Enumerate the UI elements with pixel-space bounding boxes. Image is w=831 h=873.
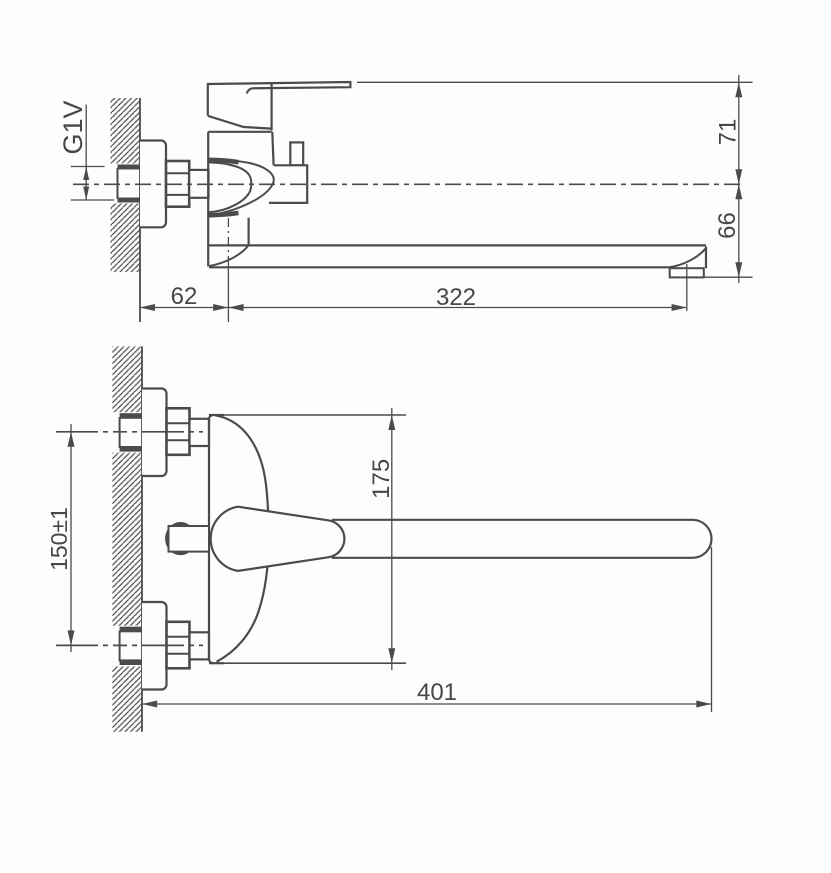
extension line handle top: [357, 81, 753, 83]
lower nipple dark band top: [120, 627, 142, 633]
threaded nipple dark band top: [118, 165, 141, 170]
aerator center extension line: [686, 264, 688, 311]
dim 150 top arrow: [68, 432, 75, 447]
body top edge + 175 top extension line: [209, 414, 406, 416]
wall hatch (front view): [112, 346, 142, 731]
handle block right edge: [271, 83, 273, 130]
cartridge dome thick bottom band: [208, 213, 238, 215]
svg-text:401: 401: [417, 679, 457, 706]
wall hatch (side view): [111, 98, 141, 272]
svg-text:175: 175: [368, 459, 395, 499]
cartridge dome inner curve: [208, 162, 251, 212]
dim 401 left arrow: [142, 701, 157, 708]
spout pill (front view): [332, 520, 712, 558]
body bottom edge + 175 bottom extension line: [209, 662, 406, 664]
lower escutcheon: [142, 602, 167, 690]
nipple end cap line: [117, 168, 119, 199]
dim 71 bottom arrow: [735, 169, 742, 184]
dim 62 right arrow: [213, 304, 228, 311]
upper connecting pipe: [190, 419, 210, 446]
G1V extension line top: [71, 166, 105, 168]
wall face edge line (front view): [141, 346, 143, 731]
dim 322 left arrow: [228, 304, 243, 311]
spout tip concave cut: [669, 248, 706, 267]
cartridge dome thick top band: [208, 160, 238, 162]
dim 175 bottom arrow: [388, 648, 395, 663]
dim 150 bottom arrow: [68, 630, 75, 645]
body axis extension line: [227, 218, 229, 265]
spout bottom line (side view): [209, 266, 669, 268]
dim 401 line: [142, 703, 712, 705]
upper eccentric centerline: [56, 431, 203, 433]
lower connecting pipe: [190, 632, 210, 659]
body neck top edge (side view): [208, 131, 271, 133]
dim 62 left arrow: [140, 304, 155, 311]
connecting pipe (side view): [189, 170, 208, 198]
centerline (side view axis): [73, 183, 745, 185]
wall pipe cutout white patch: [109, 164, 141, 204]
svg-text:322: 322: [436, 284, 476, 311]
lower nipple dark band bottom: [120, 659, 142, 665]
dim 322 right arrow: [672, 304, 687, 311]
handle teardrop (front view): [211, 507, 345, 571]
dim 66 bottom arrow: [735, 262, 742, 277]
hex nut (side view): [166, 161, 189, 207]
dim 71 top arrow: [735, 82, 742, 97]
lower hex nut: [167, 622, 190, 669]
extension line spout bottom: [693, 276, 753, 278]
diverter knob stem rect: [169, 526, 210, 552]
handle lever block (side view): [208, 82, 351, 116]
body left edge (side view): [207, 132, 209, 267]
upper nipple dark band bottom: [120, 446, 142, 452]
handle block bottom slant: [208, 116, 272, 129]
lower eccentric centerline: [56, 644, 203, 646]
diverter knob circle (front view): [167, 524, 193, 553]
dim 401 right arrow: [696, 701, 711, 708]
diverter outlet box (side view): [269, 165, 307, 203]
wall face edge line (side view): [139, 98, 141, 322]
dimension 322 line: [228, 307, 686, 309]
wall pipe cutout white patch upper: [110, 412, 142, 452]
G1V extension line bottom: [71, 199, 114, 201]
aerator under spout tip: [670, 268, 704, 277]
upper hex nut: [167, 408, 190, 455]
svg-text:66: 66: [714, 212, 741, 239]
cartridge dome outer curve: [208, 160, 273, 215]
svg-text:150±1: 150±1: [46, 507, 72, 571]
G1V arrow down: [83, 187, 89, 201]
G1V thread label leader line: [85, 105, 87, 200]
body left edge (front view): [209, 415, 213, 663]
escutcheon flange (side view): [140, 141, 166, 228]
dimension 62 line: [140, 307, 229, 309]
G1V arrow up: [83, 167, 89, 181]
upper escutcheon: [142, 389, 167, 477]
svg-text:62: 62: [171, 283, 198, 310]
spout underside junction curve: [209, 246, 248, 266]
body right edge (side view): [272, 132, 273, 166]
body right bulge curve (front view): [215, 415, 269, 662]
threaded nipple dark band bottom: [118, 198, 141, 203]
dim 66 top arrow: [735, 184, 742, 199]
lower nipple end cap: [119, 631, 121, 662]
svg-text:71: 71: [715, 119, 742, 146]
diverter knob (side view): [290, 142, 303, 165]
spout tip right edge: [705, 247, 707, 269]
upper nipple dark band top: [120, 413, 142, 419]
dim 175 top arrow: [388, 415, 395, 430]
svg-text:G1V: G1V: [58, 100, 88, 154]
spout top line (side view): [208, 244, 706, 246]
dim 175 vertical line: [391, 408, 393, 670]
upper nipple end cap: [119, 417, 121, 448]
spout tip extension line: [711, 547, 713, 712]
wall pipe cutout white patch lower: [110, 626, 142, 667]
dim 150±1 vertical line: [70, 424, 72, 652]
dims 71/66 vertical line: [738, 75, 740, 283]
lower body right edge (side view): [248, 218, 250, 246]
